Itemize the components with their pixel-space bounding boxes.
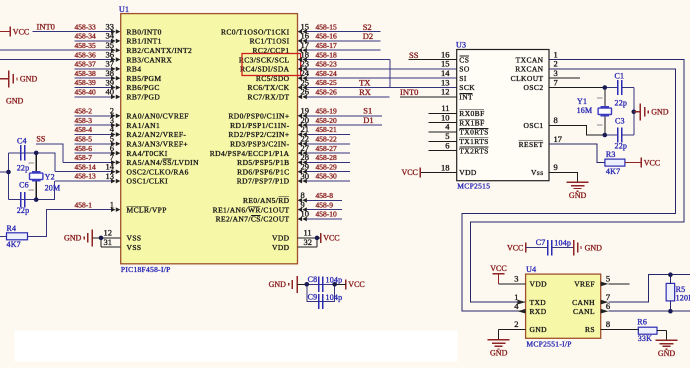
svg-text:RD7/PSP7/P1D: RD7/PSP7/P1D xyxy=(237,177,290,186)
svg-text:R3: R3 xyxy=(606,150,616,159)
svg-text:458-19: 458-19 xyxy=(316,107,337,116)
svg-text:RC6/TX/CK: RC6/TX/CK xyxy=(248,83,290,92)
svg-text:RA0/AN0/CVREF: RA0/AN0/CVREF xyxy=(127,112,189,121)
svg-text:U1: U1 xyxy=(119,5,129,14)
white patch bottom-left xyxy=(15,331,458,362)
power VCC pin33 xyxy=(0,31,10,33)
svg-text:32: 32 xyxy=(304,237,313,247)
power VCC at R3 xyxy=(640,158,642,168)
svg-text:104p: 104p xyxy=(326,293,343,302)
svg-text:C7: C7 xyxy=(536,238,546,247)
svg-text:SI: SI xyxy=(459,74,467,83)
svg-text:GND: GND xyxy=(490,349,508,358)
svg-text:CANL: CANL xyxy=(573,307,595,316)
svg-text:9: 9 xyxy=(554,162,558,172)
svg-text:RD3/PSP3/C2IN-: RD3/PSP3/C2IN- xyxy=(230,140,289,149)
capacitor C7 xyxy=(526,247,548,249)
svg-text:458-10: 458-10 xyxy=(316,210,337,219)
svg-text:RB1/INT1: RB1/INT1 xyxy=(127,37,162,46)
svg-text:RB7/PGD: RB7/PGD xyxy=(127,93,161,102)
capacitor C8 xyxy=(307,283,335,285)
ground power port left xyxy=(8,70,10,87)
svg-text:RB2/CANTX/INT2: RB2/CANTX/INT2 xyxy=(127,46,193,55)
resistor R3 xyxy=(605,159,625,166)
ground at crystal xyxy=(634,111,640,113)
svg-text:4K7: 4K7 xyxy=(606,167,620,176)
svg-text:VCC: VCC xyxy=(644,158,660,167)
capacitor C1 xyxy=(617,80,619,95)
svg-text:RE2/AN7/CS/C2OUT: RE2/AN7/CS/C2OUT xyxy=(216,215,290,224)
svg-text:458-18: 458-18 xyxy=(316,50,337,59)
svg-text:458-21: 458-21 xyxy=(316,125,337,134)
svg-text:MCP2515: MCP2515 xyxy=(457,182,490,191)
svg-text:VCC: VCC xyxy=(348,280,364,289)
capacitor C9 xyxy=(307,284,335,301)
svg-text:CANH: CANH xyxy=(572,298,595,307)
svg-text:CLKOUT: CLKOUT xyxy=(511,74,544,83)
svg-text:104p: 104p xyxy=(554,239,571,248)
svg-text:VDD: VDD xyxy=(530,280,548,289)
svg-text:RX0BF: RX0BF xyxy=(459,109,484,118)
svg-text:RB6/PGC: RB6/PGC xyxy=(127,83,160,92)
svg-text:458-25: 458-25 xyxy=(316,78,337,87)
svg-text:GND: GND xyxy=(64,234,82,243)
ground at VSS xyxy=(91,229,93,246)
svg-text:RD2/PSP2/C2IN+: RD2/PSP2/C2IN+ xyxy=(228,130,289,139)
svg-text:GND: GND xyxy=(6,97,24,106)
svg-text:458-24: 458-24 xyxy=(316,69,337,78)
svg-text:458-5: 458-5 xyxy=(75,135,93,144)
svg-text:458-23: 458-23 xyxy=(316,60,337,69)
svg-text:GND: GND xyxy=(530,325,548,334)
svg-text:458-26: 458-26 xyxy=(316,88,337,97)
svg-text:RXCAN: RXCAN xyxy=(515,65,543,74)
svg-text:33K: 33K xyxy=(638,334,652,343)
svg-text:458-39: 458-39 xyxy=(75,78,96,87)
stub wire to left edge xyxy=(0,171,9,173)
svg-text:18: 18 xyxy=(441,162,450,172)
svg-text:CS: CS xyxy=(459,55,469,64)
power VCC at C8 xyxy=(345,279,347,289)
svg-text:RD6/PSP6/P1C: RD6/PSP6/P1C xyxy=(237,167,289,176)
svg-text:8: 8 xyxy=(554,115,558,125)
svg-text:RB0/INT0: RB0/INT0 xyxy=(127,27,162,36)
svg-text:VCC: VCC xyxy=(323,234,339,243)
wire RC3-SCK down to U3 xyxy=(390,60,457,88)
svg-text:RB5/PGM: RB5/PGM xyxy=(127,74,162,83)
svg-text:458-4: 458-4 xyxy=(75,125,93,134)
svg-text:458-27: 458-27 xyxy=(316,144,337,153)
svg-text:458-15: 458-15 xyxy=(316,22,337,31)
svg-text:VCC: VCC xyxy=(490,264,506,273)
svg-text:7: 7 xyxy=(554,77,558,87)
svg-text:C8: C8 xyxy=(308,275,318,284)
svg-text:458-38: 458-38 xyxy=(75,69,96,78)
svg-text:R6: R6 xyxy=(637,318,647,327)
svg-text:RESET: RESET xyxy=(519,140,544,149)
crystal right circuit wires xyxy=(605,87,618,89)
svg-text:22p: 22p xyxy=(17,163,30,172)
svg-text:458-17: 458-17 xyxy=(316,41,337,50)
capacitor C4 xyxy=(20,145,22,160)
svg-text:2: 2 xyxy=(514,319,518,329)
svg-text:INT0: INT0 xyxy=(400,87,418,97)
svg-text:TX2RTS: TX2RTS xyxy=(459,146,488,155)
svg-text:120R: 120R xyxy=(676,294,690,303)
svg-text:458-28: 458-28 xyxy=(316,153,337,162)
svg-text:RA4/T0CKI: RA4/T0CKI xyxy=(127,149,168,158)
svg-text:MCLR/VPP: MCLR/VPP xyxy=(127,205,167,214)
svg-text:RA1/AN1: RA1/AN1 xyxy=(127,121,161,130)
svg-text:C3: C3 xyxy=(615,116,625,125)
svg-text:D2: D2 xyxy=(363,31,373,41)
svg-text:TXD: TXD xyxy=(530,298,547,307)
svg-text:6: 6 xyxy=(445,140,449,150)
svg-text:458-37: 458-37 xyxy=(75,60,96,69)
RESET wire xyxy=(549,144,605,162)
svg-text:RB3/CANRX: RB3/CANRX xyxy=(127,55,173,64)
crystal top node to OSC2 row xyxy=(36,153,55,172)
svg-text:GND: GND xyxy=(269,280,287,289)
svg-text:8: 8 xyxy=(606,319,610,329)
resistor R6 xyxy=(638,327,657,334)
svg-text:VDD: VDD xyxy=(272,234,290,243)
svg-text:GND: GND xyxy=(658,349,676,358)
svg-text:VSS: VSS xyxy=(127,243,142,252)
svg-text:Y2: Y2 xyxy=(45,172,55,181)
svg-text:RC0/T1OSO/T1CKI: RC0/T1OSO/T1CKI xyxy=(221,27,290,36)
svg-text:RX1BF: RX1BF xyxy=(459,118,484,127)
svg-text:31: 31 xyxy=(104,237,113,247)
svg-text:22p: 22p xyxy=(615,98,628,107)
capacitor C6 xyxy=(20,192,22,207)
TXCAN long wire xyxy=(470,60,684,303)
svg-text:458-16: 458-16 xyxy=(316,32,337,41)
svg-text:GND: GND xyxy=(651,108,669,117)
svg-text:SS: SS xyxy=(36,135,45,144)
wire R4 to MCLR row xyxy=(28,210,112,237)
svg-text:458-30: 458-30 xyxy=(316,172,337,181)
svg-text:OSC1: OSC1 xyxy=(524,121,544,130)
svg-text:VCC: VCC xyxy=(13,27,29,36)
svg-text:4K7: 4K7 xyxy=(7,240,21,249)
power VCC at C7 xyxy=(525,243,527,253)
crystal Y2 xyxy=(35,153,37,200)
svg-text:458-34: 458-34 xyxy=(75,32,96,41)
svg-text:INT: INT xyxy=(459,93,473,102)
svg-text:458-13: 458-13 xyxy=(75,172,96,181)
svg-text:C6: C6 xyxy=(19,181,29,190)
svg-text:Y1: Y1 xyxy=(577,97,587,106)
svg-text:22p: 22p xyxy=(615,141,628,150)
resistor R4 xyxy=(7,233,28,240)
svg-text:OSC2/CLKO/RA6: OSC2/CLKO/RA6 xyxy=(127,167,189,176)
svg-text:RXD: RXD xyxy=(530,307,547,316)
svg-text:OSC2: OSC2 xyxy=(524,83,544,92)
svg-text:458-29: 458-29 xyxy=(316,162,337,171)
svg-text:D1: D1 xyxy=(363,115,373,125)
crystal Y1 xyxy=(604,88,606,136)
svg-text:VSS: VSS xyxy=(127,234,142,243)
svg-text:RB4: RB4 xyxy=(127,65,142,74)
svg-text:RS: RS xyxy=(585,325,595,334)
svg-text:OSC1/CLKI: OSC1/CLKI xyxy=(127,177,169,186)
svg-text:VCC: VCC xyxy=(507,243,523,252)
svg-text:40: 40 xyxy=(106,87,115,97)
svg-text:RD1/PSP1/C1IN-: RD1/PSP1/C1IN- xyxy=(230,121,289,130)
svg-text:SCK: SCK xyxy=(459,83,475,92)
svg-text:RA5/AN4/SS/LVDIN: RA5/AN4/SS/LVDIN xyxy=(127,158,200,167)
svg-text:458-35: 458-35 xyxy=(75,41,96,50)
svg-text:U4: U4 xyxy=(526,265,536,274)
svg-text:458-3: 458-3 xyxy=(75,116,93,125)
svg-text:458-20: 458-20 xyxy=(316,116,337,125)
svg-text:20M: 20M xyxy=(45,183,61,192)
svg-text:RE1/AN6/WR/C1OUT: RE1/AN6/WR/C1OUT xyxy=(213,205,290,214)
OSC2 wire xyxy=(549,87,605,89)
svg-text:13: 13 xyxy=(106,171,115,181)
svg-text:RC4/SDI/SDA: RC4/SDI/SDA xyxy=(240,65,290,74)
red highlight box around RC3/RC4 xyxy=(242,54,301,76)
resistor R5 xyxy=(666,283,675,301)
svg-text:RA2/AN2/VREF-: RA2/AN2/VREF- xyxy=(127,130,187,139)
svg-text:TX1RTS: TX1RTS xyxy=(459,137,488,146)
RXCAN long wire xyxy=(462,69,676,311)
svg-text:458-2: 458-2 xyxy=(75,107,93,116)
svg-text:5: 5 xyxy=(606,274,610,284)
svg-text:RD5/PSP5/P1B: RD5/PSP5/P1B xyxy=(237,158,289,167)
svg-text:6: 6 xyxy=(606,301,610,311)
IC U4 MCP2551-I/P body xyxy=(526,274,601,338)
svg-text:TXCAN: TXCAN xyxy=(516,55,544,64)
power VCC at VDD xyxy=(320,233,322,243)
svg-text:RA3/AN3/VREF+: RA3/AN3/VREF+ xyxy=(127,140,189,149)
svg-text:VDD: VDD xyxy=(459,168,477,177)
svg-text:C4: C4 xyxy=(17,136,27,145)
svg-text:C1: C1 xyxy=(615,72,625,81)
svg-text:458-14: 458-14 xyxy=(75,162,96,171)
svg-text:GND: GND xyxy=(569,191,587,200)
svg-text:458-1: 458-1 xyxy=(75,200,93,209)
svg-text:3: 3 xyxy=(514,274,518,284)
svg-text:U3: U3 xyxy=(456,41,466,50)
svg-text:VREF: VREF xyxy=(574,280,595,289)
svg-text:MCP2551-I/P: MCP2551-I/P xyxy=(526,339,571,348)
svg-text:RD0/PSP0/C1IN+: RD0/PSP0/C1IN+ xyxy=(228,112,289,121)
OSC1 wire xyxy=(549,125,605,135)
svg-text:458-7: 458-7 xyxy=(75,153,93,162)
svg-text:C9: C9 xyxy=(308,293,318,302)
Vss wire to ground xyxy=(549,172,578,181)
ground at C7 xyxy=(573,240,575,255)
svg-text:458-8: 458-8 xyxy=(316,191,334,200)
svg-text:RC7/RX/DT: RC7/RX/DT xyxy=(248,93,290,102)
IC U1 PIC18F458-I/P body xyxy=(121,14,298,264)
svg-text:458-40: 458-40 xyxy=(75,88,96,97)
svg-text:VDD: VDD xyxy=(272,243,290,252)
svg-text:RC1/T1OSI: RC1/T1OSI xyxy=(250,37,290,46)
svg-text:GND: GND xyxy=(20,75,38,84)
svg-text:12: 12 xyxy=(441,87,450,97)
svg-text:458-33: 458-33 xyxy=(75,22,96,31)
svg-text:INT0: INT0 xyxy=(37,21,55,31)
svg-text:16M: 16M xyxy=(577,106,593,115)
wire C4 row xyxy=(9,152,37,154)
left rail wire xyxy=(8,153,10,200)
crystal bottom node to OSC1 row xyxy=(36,181,55,200)
svg-text:RX: RX xyxy=(359,87,371,97)
IC U3 MCP2515 body xyxy=(457,50,549,181)
wire C6 row xyxy=(9,199,37,201)
svg-text:RC3/SCK/SCL: RC3/SCK/SCL xyxy=(239,55,290,64)
svg-text:VCC: VCC xyxy=(401,168,417,177)
svg-text:SS: SS xyxy=(409,50,419,60)
svg-text:SO: SO xyxy=(459,65,470,74)
svg-text:GND: GND xyxy=(585,243,603,252)
svg-text:458-6: 458-6 xyxy=(75,144,93,153)
svg-text:22p: 22p xyxy=(17,206,30,215)
svg-text:17: 17 xyxy=(554,134,563,144)
power VCC at U4 xyxy=(498,274,500,284)
svg-text:RE0/AN5/RD: RE0/AN5/RD xyxy=(243,196,290,205)
capacitor C3 xyxy=(617,127,619,142)
svg-text:TX0RTS: TX0RTS xyxy=(459,128,488,137)
svg-text:R4: R4 xyxy=(7,224,17,233)
svg-text:458-22: 458-22 xyxy=(316,135,337,144)
svg-text:458-36: 458-36 xyxy=(75,50,96,59)
svg-text:PIC18F458-I/P: PIC18F458-I/P xyxy=(121,265,171,274)
svg-text:458-9: 458-9 xyxy=(316,200,334,209)
svg-text:RD4/PSP4/ECCP1/P1A: RD4/PSP4/ECCP1/P1A xyxy=(210,149,290,158)
